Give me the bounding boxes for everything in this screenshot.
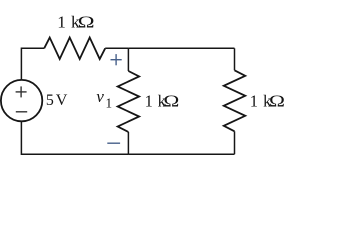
svg-text:Ω: Ω bbox=[78, 13, 95, 32]
wire R2 bottom to node B bbox=[127, 132, 129, 154]
voltage source V1 circle (5 V) bbox=[1, 80, 42, 121]
wire TR corner down to R3 bbox=[234, 48, 236, 70]
svg-text:Ω: Ω bbox=[269, 93, 285, 111]
resistor R3 (1 kOhm, right vertical zigzag) bbox=[224, 70, 246, 131]
wire node A down to R2 bbox=[127, 48, 129, 71]
wire node B to BR corner bbox=[128, 153, 234, 155]
minus sign inside source bbox=[16, 111, 27, 113]
svg-text:v1: v1 bbox=[96, 87, 112, 110]
resistor R1 (1 kOhm, top horizontal zigzag) bbox=[44, 38, 105, 60]
wire R3 bottom to BR corner bbox=[234, 131, 236, 154]
wire top-left: TL corner to R1 left lead bbox=[21, 48, 44, 80]
wire R1 to node A bbox=[105, 47, 128, 49]
resistor R2 (1 kOhm, middle vertical zigzag) bbox=[118, 71, 139, 132]
svg-text:Ω: Ω bbox=[163, 93, 179, 111]
svg-text:1 k: 1 k bbox=[57, 12, 80, 31]
plus sign inside source bbox=[16, 86, 27, 97]
minus sign polarity v1 bbox=[107, 142, 120, 144]
wire source bottom to BL corner bbox=[21, 121, 128, 154]
svg-text:V: V bbox=[56, 92, 68, 109]
plus sign polarity v1 (blue-gray) bbox=[111, 54, 122, 65]
wire node A to TR corner bbox=[128, 47, 234, 49]
svg-text:5: 5 bbox=[46, 92, 54, 109]
